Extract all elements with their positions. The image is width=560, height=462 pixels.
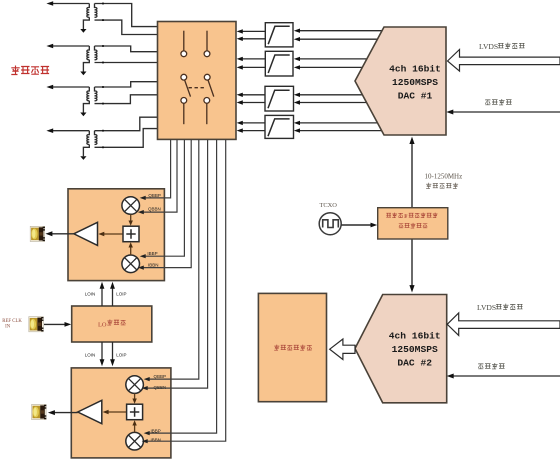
RF connector J2 <box>29 317 44 332</box>
filter F3 <box>265 86 294 111</box>
wire IBBN1 <box>138 140 191 270</box>
quadrature modulator box <box>258 293 326 401</box>
switch S2 arm <box>204 74 214 103</box>
wire QBBN1 <box>138 140 177 214</box>
arrow M1a to summer <box>129 214 133 226</box>
mixer M2b <box>126 432 144 450</box>
mixer M1b <box>122 255 140 273</box>
svg-text:QBBN: QBBN <box>154 385 167 390</box>
label link clock DAC2 <box>478 363 504 369</box>
diff pair DAC1 to F3 <box>294 93 367 105</box>
diff pair F4 to switch <box>237 121 265 133</box>
arrow M2a to summer <box>132 393 136 403</box>
svg-text:IBBN: IBBN <box>148 262 159 267</box>
gang dashed link <box>189 87 207 89</box>
wire T3 secondary top to switch <box>95 82 158 88</box>
LO generator box <box>72 306 152 342</box>
switch contact stub top-right <box>204 31 210 57</box>
switch matrix box <box>158 22 237 140</box>
diff pair F3 to switch <box>237 93 265 105</box>
wire T2 secondary bottom to switch <box>95 62 158 64</box>
mixer block 1 <box>68 189 164 281</box>
label REF CLK IN <box>2 319 22 329</box>
transformer T4 <box>87 131 97 145</box>
programmable clock line <box>409 137 414 293</box>
svg-text:IBBP: IBBP <box>147 251 157 256</box>
wire T1 secondary top to switch <box>95 3 158 27</box>
ground T4 <box>80 145 89 160</box>
diff pair F2 to switch <box>237 57 266 70</box>
arrow summer to amplifier <box>98 232 122 236</box>
svg-text:4ch 16bit: 4ch 16bit <box>389 64 441 75</box>
svg-text:DAC #1: DAC #1 <box>398 91 433 102</box>
svg-text:LOIN: LOIN <box>85 292 96 297</box>
svg-text:QBBP: QBBP <box>154 374 167 379</box>
svg-text:DAC #2: DAC #2 <box>397 358 432 369</box>
arrow summer to amplifier <box>103 410 127 414</box>
filter F4 <box>265 115 294 138</box>
wire QBBN2 <box>142 140 208 390</box>
RF connector J1 <box>30 226 45 241</box>
amplifier A2 <box>78 400 102 423</box>
filter F2 <box>265 51 293 76</box>
labels LOIN LOIP lower <box>85 353 127 358</box>
LO wires to mixer2 <box>100 342 115 366</box>
wire T4 secondary top to switch <box>95 117 158 131</box>
labels mixer1 inputs <box>147 193 161 267</box>
label LVDS bus DAC1 <box>479 42 525 51</box>
transformer T1 <box>87 4 97 18</box>
T3 output arrow <box>46 85 89 90</box>
LVDS data bus arrow DAC1 <box>448 50 560 72</box>
wire IBBP2 <box>144 140 217 435</box>
svg-text:1250MSPS: 1250MSPS <box>392 77 438 88</box>
labels LOIN LOIP upper <box>85 292 127 297</box>
label LVDS bus DAC2 <box>477 303 523 312</box>
ground T3 <box>80 101 89 116</box>
svg-text:1250MSPS: 1250MSPS <box>392 344 438 355</box>
svg-text:LO: LO <box>98 321 107 328</box>
clock generator box <box>378 208 448 239</box>
diff pair DAC1 to F2 <box>294 57 367 70</box>
wire T1 secondary bottom to switch <box>95 19 158 34</box>
arrow M2b to summer <box>132 420 136 432</box>
mixer M1a <box>122 197 140 215</box>
T2 output arrow <box>46 44 89 49</box>
summer S2 <box>127 404 143 420</box>
svg-text:10-1250MHz: 10-1250MHz <box>425 173 463 181</box>
mixer block 2 <box>71 368 171 458</box>
svg-text:LOIN: LOIN <box>85 353 96 358</box>
mixer2 output arrow <box>48 410 78 415</box>
wire QBBP1 <box>140 140 171 200</box>
DAC #1 <box>355 27 446 135</box>
summer S1 <box>123 226 139 242</box>
svg-text:LOIP: LOIP <box>116 353 126 358</box>
wire QBBP2 <box>144 140 199 381</box>
svg-text:QBBN: QBBN <box>148 207 161 212</box>
diff pair DAC1 to F1 <box>294 29 382 42</box>
diff pair DAC1 to F4 <box>294 121 382 133</box>
RF connector J3 <box>32 404 47 419</box>
wire T2 secondary top to switch <box>95 45 158 52</box>
wire IBBP1 <box>140 140 185 258</box>
svg-text:IN: IN <box>5 324 11 329</box>
link clock arrow DAC1 <box>446 110 560 115</box>
T4 output arrow <box>46 128 89 133</box>
LO wires to mixer1 <box>100 282 115 306</box>
arrow REF CLK to LO box <box>44 322 71 327</box>
wires switch box to mixer blocks <box>138 140 226 444</box>
wire T3 secondary bottom to switch <box>95 95 158 105</box>
T1 output arrow <box>46 1 89 6</box>
transformer T2 <box>87 46 97 60</box>
ground T2 <box>80 60 89 75</box>
LVDS data bus arrow DAC2 <box>447 313 560 336</box>
arrow M1b to summer <box>129 242 133 255</box>
ground T1 <box>80 17 89 32</box>
label link clock DAC1 <box>485 99 511 105</box>
svg-text:4ch 16bit: 4ch 16bit <box>389 331 441 342</box>
wire IBBN2 <box>142 140 226 444</box>
TCXO oscillator <box>319 202 341 235</box>
amplifier A1 <box>74 222 98 245</box>
svg-text:TCXO: TCXO <box>320 202 338 209</box>
svg-text:QBBP: QBBP <box>148 193 161 198</box>
diff pair F1 to switch <box>237 29 266 41</box>
switch S1 arm <box>181 74 191 103</box>
labels mixer2 inputs <box>151 374 167 443</box>
label 10-1250MHz programmable clock <box>425 173 463 189</box>
arrow TCXO to clock generator <box>341 223 377 228</box>
link clock arrow DAC2 <box>447 374 560 379</box>
DAC #2 <box>355 295 447 403</box>
svg-text:LOIP: LOIP <box>116 292 126 297</box>
svg-text:LVDS: LVDS <box>479 42 498 51</box>
switch contact stub bottom-right <box>206 104 208 125</box>
hollow arrow DAC2 to modulator <box>330 339 355 360</box>
label test reserved (red) <box>11 66 49 75</box>
svg-text:LVDS: LVDS <box>477 303 496 312</box>
switch contact stub top-left <box>181 31 187 57</box>
mixer1 output arrow <box>45 231 73 236</box>
wire T4 secondary bottom to switch <box>95 129 158 149</box>
switch contact stub bottom-left <box>183 104 185 125</box>
transformer T3 <box>87 87 97 101</box>
mixer M2a <box>126 376 144 394</box>
filter F1 <box>265 23 293 47</box>
